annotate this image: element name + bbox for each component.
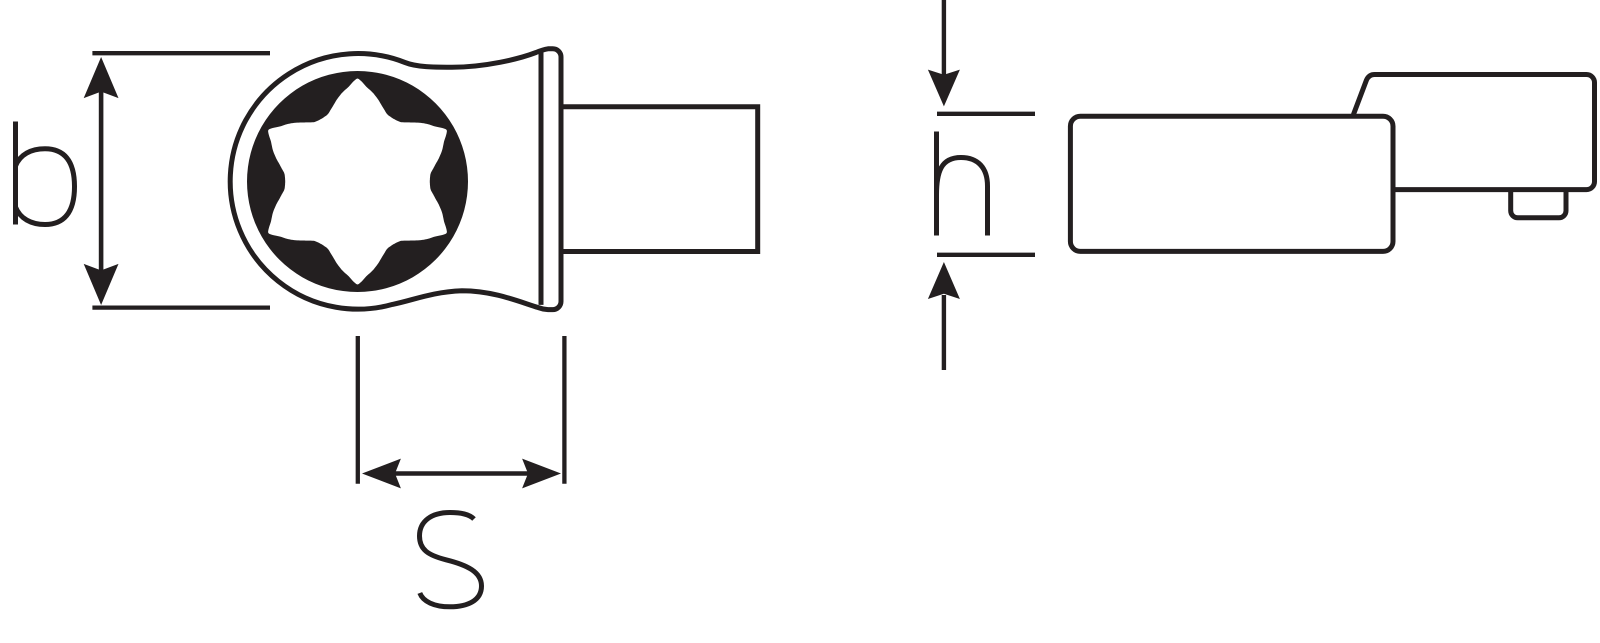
h dim arrowhead up [928, 262, 960, 299]
h dim arrowhead down [928, 70, 960, 107]
b dim: top extension line [92, 51, 270, 55]
torx disc [247, 71, 468, 292]
h dim: upper arrow line [942, 0, 946, 76]
S dim: horizontal arrow line [393, 471, 529, 475]
b dim arrowhead top [84, 57, 119, 98]
h dim: upper tick [937, 112, 1035, 116]
label S [420, 513, 482, 607]
S dim arrowhead left [362, 459, 401, 489]
side view drive tab [1511, 190, 1566, 218]
tang rectangle [561, 107, 758, 252]
S dim: right extension line [562, 336, 566, 484]
h dim: lower arrow line [942, 295, 946, 370]
h dim: lower tick [937, 253, 1035, 257]
b dim arrowhead bottom [84, 264, 119, 305]
ring outer contour [230, 49, 561, 310]
side view main body [1070, 116, 1393, 251]
S dim: left extension line [356, 336, 360, 484]
label h [937, 132, 988, 236]
b dim: bottom extension line [92, 305, 270, 309]
S dim arrowhead right [522, 459, 561, 489]
plate inner edge line [539, 52, 544, 305]
side view ring head [1353, 75, 1594, 190]
label b [16, 122, 75, 225]
b dim: vertical arrow line [99, 89, 104, 271]
